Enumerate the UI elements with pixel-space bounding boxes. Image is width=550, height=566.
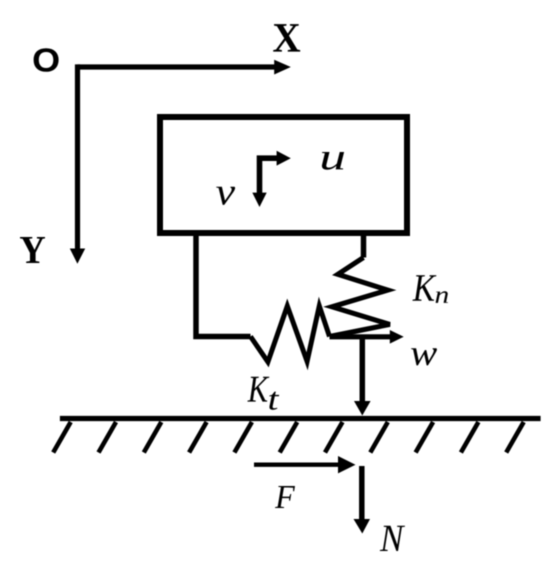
label v [216, 187, 235, 205]
left hanging wire + Kt lead wire [196, 230, 251, 337]
label N [380, 526, 405, 551]
ground hatching [53, 422, 524, 453]
F arrow wire [254, 463, 338, 467]
w arrow wire [330, 334, 391, 339]
mass block rectangle [160, 117, 407, 233]
spring Kn zigzag [330, 258, 390, 337]
label Y [20, 237, 45, 263]
spring Kt zigzag [251, 306, 330, 362]
Y axis wire [75, 64, 80, 249]
v arrow (local frame vertical) arrowhead [252, 193, 266, 207]
N arrow wire [359, 466, 365, 520]
Y axis arrowhead [70, 249, 85, 264]
label Kn [412, 275, 436, 300]
label w [411, 348, 437, 365]
label F [275, 486, 295, 508]
u arrow (local frame horizontal) [260, 158, 278, 193]
right hanging wire [361, 230, 367, 258]
ground line [60, 416, 541, 421]
contact normal down arrow wire [360, 337, 366, 402]
X axis wire [78, 64, 276, 69]
label O [34, 48, 59, 72]
label Kt [247, 377, 269, 402]
label u [322, 152, 344, 170]
label X [273, 24, 300, 52]
X axis arrowhead [274, 60, 291, 75]
